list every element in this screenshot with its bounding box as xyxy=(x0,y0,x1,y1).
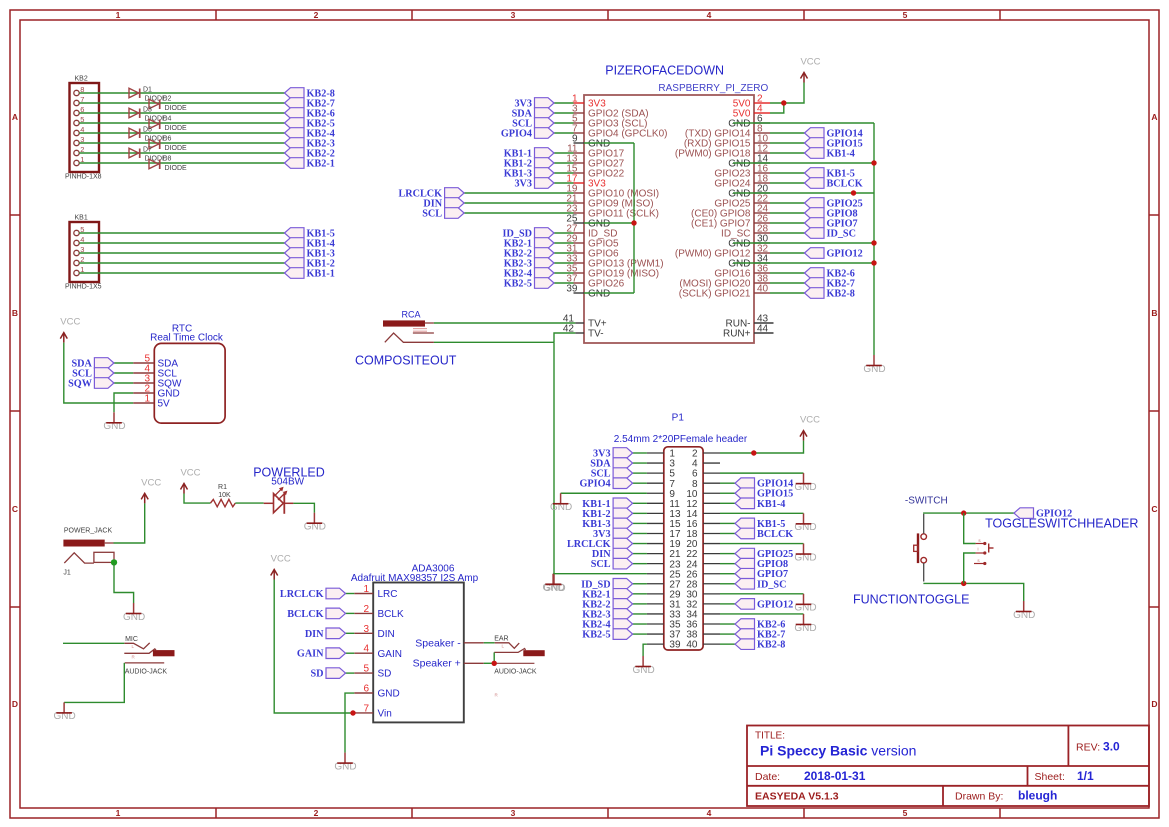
wire U1 pin 8 to net GPIO14 xyxy=(770,132,805,134)
svg-text:KB1-1: KB1-1 xyxy=(307,269,335,280)
svg-text:Speaker -: Speaker - xyxy=(415,637,461,649)
svg-text:GAIN: GAIN xyxy=(297,649,324,660)
net flag KB1-2 xyxy=(504,158,554,170)
net flag 3V3 xyxy=(514,178,554,190)
diode D1 xyxy=(129,87,167,103)
wire P1 pin 38 to net KB2-7 xyxy=(720,633,735,635)
U3 speaker output pins xyxy=(413,637,484,669)
RCA composite video connector xyxy=(383,309,434,342)
svg-text:A: A xyxy=(1151,112,1157,122)
svg-text:LRC: LRC xyxy=(378,589,398,600)
svg-text:D5: D5 xyxy=(143,127,152,134)
net flag KB1-4 xyxy=(805,148,855,160)
wire P1 pin 2 to VCC xyxy=(720,441,804,453)
wire KB2 pin 6 to net flag KB2-6 xyxy=(79,112,284,114)
wire net DIN to P1 pin 21 xyxy=(633,553,647,555)
ground xyxy=(550,493,572,513)
wire RCA sleeve to U1 TV- (pin 42) and ground rail xyxy=(434,341,554,343)
junction 5V net xyxy=(781,100,786,105)
svg-text:Pi Speccy Basic version: Pi Speccy Basic version xyxy=(760,743,916,759)
wire U1 pin 2 5V0 to VCC xyxy=(770,83,804,104)
svg-text:SD: SD xyxy=(378,669,392,680)
IC U1 PIZEROFACEDOWN RASPBERRY_PI_ZERO xyxy=(584,64,768,343)
net flag SDA xyxy=(72,358,114,370)
svg-text:ID_SC: ID_SC xyxy=(757,579,786,590)
svg-text:KB2-8: KB2-8 xyxy=(757,640,785,651)
svg-text:1: 1 xyxy=(363,584,369,595)
switch SW1 -SWITCH xyxy=(905,496,948,582)
wire toggle header pin 1 xyxy=(964,513,976,543)
wire net GPIO4 to U1 pin 7 xyxy=(554,132,574,134)
svg-text:DIODE: DIODE xyxy=(165,125,188,132)
svg-text:C: C xyxy=(12,504,18,514)
label POWERLED 504BW xyxy=(253,465,325,487)
wire net KB2-4 to U1 pin 35 xyxy=(554,272,574,274)
svg-text:KB1-4: KB1-4 xyxy=(827,149,855,160)
svg-text:GPIO4: GPIO4 xyxy=(579,479,610,490)
svg-text:A: A xyxy=(12,112,18,122)
U1 left pin names xyxy=(588,99,667,340)
svg-text:5: 5 xyxy=(903,10,908,20)
net flag GAIN xyxy=(297,648,346,660)
svg-text:1: 1 xyxy=(116,10,121,20)
svg-text:504BW: 504BW xyxy=(271,477,304,488)
net flag KB2-2 xyxy=(504,248,554,260)
net flag KB2-1 xyxy=(285,158,335,170)
wire net KB1-3 to P1 pin 15 xyxy=(633,522,647,524)
net flag KB1-5 xyxy=(805,168,855,180)
net flag SDA xyxy=(590,458,632,470)
svg-text:39: 39 xyxy=(669,640,681,651)
net flag KB2-3 xyxy=(285,138,335,150)
ground xyxy=(632,656,654,676)
ground xyxy=(123,603,145,623)
connector KB2 PINHD-1X8 xyxy=(65,76,102,181)
net flag SCL xyxy=(512,118,554,130)
net flag KB1-3 xyxy=(582,518,632,530)
svg-text:5: 5 xyxy=(903,808,908,818)
wire switch top to GPIO12 flag xyxy=(923,512,1014,514)
connector MIC AUDIO-JACK xyxy=(124,636,174,676)
svg-text:-SWITCH: -SWITCH xyxy=(905,496,948,507)
svg-text:RUN+: RUN+ xyxy=(723,329,751,340)
wire P1 pin 9 to ground xyxy=(561,492,647,494)
net flag KB1-2 xyxy=(285,258,335,270)
wire P1 pin 26 to net GPIO7 xyxy=(720,573,735,575)
wire speaker- to EAR jack xyxy=(484,642,495,644)
svg-text:1: 1 xyxy=(144,394,150,405)
net flag BCLCK xyxy=(287,608,345,620)
wire EAR ring to speaker+ node xyxy=(493,652,495,663)
wire speaker+ to EAR jack xyxy=(484,662,494,664)
net flag KB1-1 xyxy=(582,498,632,510)
diode D2 xyxy=(149,95,187,111)
svg-text:D: D xyxy=(1151,699,1157,709)
net flag KB2-8 xyxy=(735,639,785,651)
svg-text:7: 7 xyxy=(363,703,369,714)
wire net SDA to U1 pin 3 xyxy=(554,112,574,114)
svg-text:PINHD-1X5: PINHD-1X5 xyxy=(65,284,102,291)
wire net KB2-5 to P1 pin 37 xyxy=(633,633,647,635)
wire net 3V3 to P1 pin 17 xyxy=(633,532,647,534)
svg-text:KB2: KB2 xyxy=(75,76,88,83)
svg-text:5: 5 xyxy=(363,664,369,675)
ground xyxy=(542,574,564,594)
net flag KB2-3 xyxy=(504,258,554,270)
net flag LRCLCK xyxy=(567,538,633,550)
net flag KB1-1 xyxy=(504,148,554,160)
svg-text:RCA: RCA xyxy=(401,309,420,319)
svg-text:SCL: SCL xyxy=(422,209,442,220)
net flag KB2-1 xyxy=(504,238,554,250)
wire net DIN to U1 pin 21 xyxy=(464,202,573,204)
svg-text:TV-: TV- xyxy=(588,329,604,340)
KB2 pin circles xyxy=(74,90,79,165)
svg-text:D1: D1 xyxy=(143,87,152,94)
svg-text:2.54mm 2*20PFemale header: 2.54mm 2*20PFemale header xyxy=(614,434,748,445)
svg-text:MIC: MIC xyxy=(125,636,138,643)
svg-text:3: 3 xyxy=(511,808,516,818)
wire net 3V3 to U1 pin 17 xyxy=(554,182,574,184)
wire audio jack sleeve to ground xyxy=(64,663,124,703)
wire KB2 pin 3 to net flag KB2-3 xyxy=(79,142,284,144)
svg-text:Date:: Date: xyxy=(755,771,780,783)
wire P1 pin 30 to ground xyxy=(720,593,804,595)
diode D7 xyxy=(129,147,167,163)
svg-text:3: 3 xyxy=(511,10,516,20)
net flag DIN xyxy=(305,628,346,640)
wire net 3V3 to U1 pin 1 xyxy=(554,102,574,104)
svg-text:BCLCK: BCLCK xyxy=(287,609,323,620)
wire VCC to RTC 5V pin xyxy=(64,343,133,403)
border ticks bottom xyxy=(216,808,1000,818)
svg-text:DIODE: DIODE xyxy=(165,145,188,152)
svg-text:KB2-5: KB2-5 xyxy=(504,279,532,290)
svg-text:POWER_JACK: POWER_JACK xyxy=(64,528,113,535)
wire RCA tip to U1 TV+ (pin 41) xyxy=(434,322,576,324)
ground xyxy=(334,753,356,773)
ground xyxy=(543,574,565,594)
wire P1 pin 25 to ground xyxy=(553,573,647,575)
KB2 pin numbers 8-1 xyxy=(80,85,84,164)
wire net SCL to P1 pin 23 xyxy=(633,563,647,565)
U3 pin numbers 1-7 xyxy=(363,584,369,714)
svg-text:6: 6 xyxy=(363,684,369,695)
svg-text:BCLCK: BCLCK xyxy=(757,529,793,540)
svg-text:GAIN: GAIN xyxy=(378,649,402,660)
wire KB2 pin 1 to net flag KB2-1 xyxy=(79,162,284,164)
net flag KB1-4 xyxy=(285,238,335,250)
svg-text:D8: D8 xyxy=(163,155,172,162)
svg-text:D4: D4 xyxy=(163,115,172,122)
ground xyxy=(794,513,816,533)
net flag KB2-8 xyxy=(285,88,335,100)
wire U1 pin 18 to net BCLCK xyxy=(770,182,805,184)
svg-text:3V3: 3V3 xyxy=(514,179,532,190)
connector POWER_JACK J1 xyxy=(63,528,114,577)
net flag KB2-6 xyxy=(285,108,335,120)
svg-text:(SCLK) GPIO21: (SCLK) GPIO21 xyxy=(679,289,751,300)
ground xyxy=(103,412,125,432)
border row letters right xyxy=(1151,112,1157,709)
diode D5 xyxy=(129,127,167,143)
svg-text:DIODE: DIODE xyxy=(165,105,188,112)
wire net SCL to RTC xyxy=(114,372,133,374)
net flag GPIO14 xyxy=(805,128,863,140)
svg-text:SCL: SCL xyxy=(591,559,611,570)
wire KB2 pin 5 to net flag KB2-5 xyxy=(79,122,284,124)
net flag KB2-6 xyxy=(735,619,785,631)
svg-text:2: 2 xyxy=(314,808,319,818)
toggle switch header contacts xyxy=(974,538,994,565)
U3 left pin lines xyxy=(354,594,373,713)
net flag KB2-1 xyxy=(582,589,632,601)
wire KB1 pin 5 to net flag KB1-5 xyxy=(79,232,284,234)
net flag KB2-2 xyxy=(285,148,335,160)
net flag SCL xyxy=(422,208,464,220)
net flag 3V3 xyxy=(593,528,633,540)
KB1 pin numbers 5-1 xyxy=(80,225,84,274)
junction U1 GND bus at pin 25 xyxy=(631,220,636,225)
net flag ID_SD xyxy=(503,228,554,240)
net flag ID_SC xyxy=(805,228,856,240)
wire P1 pin 32 to net GPIO12 xyxy=(720,603,735,605)
net flag KB1-1 xyxy=(285,268,335,280)
svg-text:VCC: VCC xyxy=(271,554,291,565)
wire net SCL to U1 pin 5 xyxy=(554,122,574,124)
net flag GPIO25 xyxy=(805,198,863,210)
svg-text:BCLCK: BCLCK xyxy=(827,179,863,190)
svg-text:VCC: VCC xyxy=(800,415,820,426)
svg-text:AUDIO-JACK: AUDIO-JACK xyxy=(125,669,168,676)
wire power jack to VCC xyxy=(114,503,145,543)
svg-text:VCC: VCC xyxy=(60,317,80,328)
net flag KB2-5 xyxy=(285,118,335,130)
net flag SDA xyxy=(512,108,554,120)
connector KB1 PINHD-1X5 xyxy=(65,215,102,291)
net flag KB2-7 xyxy=(735,629,785,641)
svg-text:D6: D6 xyxy=(163,135,172,142)
svg-text:GPIO4: GPIO4 xyxy=(501,129,532,140)
wire P1 pin 24 to net GPIO8 xyxy=(720,563,735,565)
wire net KB2-3 to U1 pin 33 xyxy=(554,262,574,264)
wire net KB1-2 to U1 pin 13 xyxy=(554,162,574,164)
svg-text:Drawn By:: Drawn By: xyxy=(955,791,1003,803)
U1 left pin numbers xyxy=(563,94,578,335)
svg-text:Speaker +: Speaker + xyxy=(413,657,461,669)
ground xyxy=(794,594,816,614)
wire net SCL to P1 pin 5 xyxy=(633,472,647,474)
net flag ID_SD xyxy=(581,578,632,590)
wire KB1 pin 3 to net flag KB1-3 xyxy=(79,252,284,254)
svg-text:DIODE: DIODE xyxy=(165,165,188,172)
net flag KB2-4 xyxy=(582,619,632,631)
svg-text:bleugh: bleugh xyxy=(1018,789,1057,803)
svg-text:KB2-5: KB2-5 xyxy=(582,630,610,641)
svg-text:ID_SC: ID_SC xyxy=(827,229,856,240)
junction speaker+ xyxy=(492,661,497,666)
wire VCC to R1 xyxy=(184,494,211,504)
P1 pin numbers xyxy=(669,449,698,651)
svg-text:D3: D3 xyxy=(143,107,152,114)
connector EAR AUDIO-JACK xyxy=(494,636,545,698)
wire switch bottom to ground xyxy=(923,583,1023,601)
wire net SDA to RTC xyxy=(114,362,133,364)
svg-text:GPIO12: GPIO12 xyxy=(827,249,863,260)
net flag KB2-5 xyxy=(504,278,554,290)
RTC real time clock component U2 xyxy=(150,324,225,423)
wire KB1 pin 2 to net flag KB1-2 xyxy=(79,262,284,264)
border column numbers bottom xyxy=(116,808,908,818)
wire net ID_SD to U1 pin 27 xyxy=(554,232,574,234)
resistor R1 10K xyxy=(211,484,236,507)
wire KB1 pin 1 to net flag KB1-1 xyxy=(79,272,284,274)
svg-text:GPIO12: GPIO12 xyxy=(1036,509,1072,520)
wire U1 pin 24 to net GPIO8 xyxy=(770,212,805,214)
svg-text:FUNCTIONTOGGLE: FUNCTIONTOGGLE xyxy=(853,593,969,607)
wire P1 pin 20 to ground xyxy=(720,543,804,545)
svg-text:D2: D2 xyxy=(163,95,172,102)
wire KB2 pin 4 to net flag KB2-4 xyxy=(79,132,284,134)
net flag KB1-3 xyxy=(285,248,335,260)
svg-text:TITLE:: TITLE: xyxy=(755,731,785,742)
net flag GPIO4 xyxy=(579,478,632,490)
svg-text:2018-01-31: 2018-01-31 xyxy=(804,769,866,783)
diode D4 xyxy=(149,115,187,131)
title block xyxy=(747,726,1149,807)
wire net LRCLCK to U3 xyxy=(346,593,355,595)
diode D8 xyxy=(149,155,187,171)
net flag GPIO7 xyxy=(805,218,858,230)
U3 pin names xyxy=(378,589,404,719)
svg-text:GND: GND xyxy=(378,689,400,700)
svg-text:GPIO12: GPIO12 xyxy=(757,599,793,610)
net flag KB2-7 xyxy=(285,98,335,110)
wire net SDA to P1 pin 3 xyxy=(633,462,647,464)
svg-text:J1: J1 xyxy=(63,570,71,577)
net flag BCLCK xyxy=(735,528,793,540)
U1 right pin names xyxy=(675,99,751,340)
svg-text:44: 44 xyxy=(757,324,769,335)
wire net KB2-3 to P1 pin 33 xyxy=(633,613,647,615)
wire net SQW to RTC xyxy=(114,382,133,384)
svg-text:KB2-1: KB2-1 xyxy=(307,159,335,170)
wire net KB1-1 to U1 pin 11 xyxy=(554,152,574,154)
wire U1 pin 4 5V0 joins 5V net xyxy=(770,103,784,113)
wire U1 pin 32 to net GPIO12 xyxy=(770,252,805,254)
net flag GPIO12 xyxy=(805,248,863,260)
wire U1 pin 38 to net KB2-7 xyxy=(770,282,805,284)
svg-text:B: B xyxy=(1151,308,1157,318)
wire net DIN to U3 xyxy=(346,632,355,634)
svg-text:PIZEROFACEDOWN: PIZEROFACEDOWN xyxy=(605,64,724,78)
KB1 pin circles xyxy=(74,230,79,275)
wire P1 pin 6 to ground xyxy=(720,472,804,474)
wire P1 pin 22 to net GPIO25 xyxy=(720,553,735,555)
wire KB2 pin 8 to net flag KB2-8 xyxy=(79,92,284,94)
svg-text:5V: 5V xyxy=(158,399,171,410)
svg-text:3: 3 xyxy=(363,624,369,635)
svg-text:SD: SD xyxy=(310,669,323,680)
border ticks left xyxy=(10,215,20,607)
wire net LRCLCK to U1 pin 19 xyxy=(464,192,573,194)
wire net KB2-2 to U1 pin 31 xyxy=(554,252,574,254)
net flag DIN xyxy=(423,198,464,210)
wire KB2 pin 2 to net flag KB2-2 xyxy=(79,152,284,154)
border ticks top xyxy=(216,10,1000,20)
wire VCC to U3 Vin pin 7 xyxy=(274,580,354,714)
RTC pin numbers 5-1 xyxy=(144,354,150,405)
net flag SCL xyxy=(72,368,114,380)
svg-text:AUDIO-JACK: AUDIO-JACK xyxy=(494,668,537,675)
svg-text:DIN: DIN xyxy=(305,629,324,640)
net flag KB2-6 xyxy=(805,268,855,280)
wire net KB2-5 to U1 pin 37 xyxy=(554,282,574,284)
svg-text:4: 4 xyxy=(707,808,712,818)
net flag KB2-4 xyxy=(285,128,335,140)
wire U1 pin 22 to net GPIO25 xyxy=(770,202,805,204)
net flag KB2-4 xyxy=(504,268,554,280)
wire P1 pin 36 to net KB2-6 xyxy=(720,623,735,625)
junction GND rail pin 30 xyxy=(871,240,876,245)
wire U3 GND pin 6 to ground xyxy=(345,693,354,753)
svg-text:Sheet:: Sheet: xyxy=(1035,771,1065,783)
P1 pin lines xyxy=(647,453,720,644)
RTC pin names xyxy=(158,359,182,410)
svg-text:EAR: EAR xyxy=(494,636,508,643)
ground xyxy=(304,513,326,533)
power flag VCC xyxy=(271,554,291,580)
svg-text:VCC: VCC xyxy=(141,477,161,488)
net flag ID_SC xyxy=(735,578,786,590)
junction Vin xyxy=(350,710,355,715)
LED LED1 504BW xyxy=(264,487,294,514)
svg-text:P1: P1 xyxy=(672,413,685,424)
power flag VCC xyxy=(180,468,200,494)
net flag KB2-8 xyxy=(805,288,855,300)
wire P1 pin 40 to net KB2-8 xyxy=(720,643,735,645)
wire J1 to ground xyxy=(114,562,134,603)
svg-text:D7: D7 xyxy=(143,147,152,154)
ground xyxy=(1013,601,1035,621)
power flag VCC xyxy=(800,415,820,441)
svg-text:39: 39 xyxy=(566,284,578,295)
svg-text:PINHD-1X8: PINHD-1X8 xyxy=(65,174,102,181)
svg-text:Vin: Vin xyxy=(378,709,392,720)
svg-text:KB2-8: KB2-8 xyxy=(827,289,855,300)
power flag VCC xyxy=(141,477,161,503)
wire P1 pin 16 to net KB1-5 xyxy=(720,522,735,524)
svg-text:1/1: 1/1 xyxy=(1077,769,1094,783)
junction switch top xyxy=(961,510,966,515)
wire net LRCLCK to P1 pin 19 xyxy=(633,543,647,545)
U1 right pin lines xyxy=(754,103,774,333)
wire P1 pin 18 to net BCLCK xyxy=(720,532,735,534)
U1 right pin numbers xyxy=(757,94,769,335)
svg-text:KB1: KB1 xyxy=(75,215,88,222)
wire P1 pin 39 to ground xyxy=(643,644,647,656)
net flag KB2-7 xyxy=(805,278,855,290)
wire net BCLCK to U3 xyxy=(346,612,355,614)
svg-text:4: 4 xyxy=(363,644,369,655)
border column numbers top xyxy=(116,10,908,20)
wire P1 pin 28 to net ID_SC xyxy=(720,583,735,585)
wire KB1 pin 4 to net flag KB1-4 xyxy=(79,242,284,244)
svg-text:2: 2 xyxy=(314,10,319,20)
svg-text:B: B xyxy=(12,308,18,318)
svg-text:RASPBERRY_PI_ZERO: RASPBERRY_PI_ZERO xyxy=(658,83,768,94)
net flag KB2-5 xyxy=(582,629,632,641)
